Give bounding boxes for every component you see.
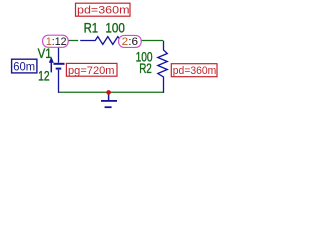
wire bottom: [59, 91, 163, 93]
current arrow: [49, 57, 54, 73]
power box pd R2: [171, 64, 217, 77]
svg-text:R1: R1: [84, 21, 99, 36]
node label 2:6: [119, 35, 142, 48]
battery V1: [54, 46, 65, 93]
resistor R2: [158, 41, 168, 93]
svg-text:pg=720m: pg=720m: [68, 65, 115, 77]
ground: [101, 93, 117, 108]
power box pd R1: [76, 3, 131, 16]
wire top left segment: [59, 40, 79, 42]
svg-text:V1: V1: [38, 46, 52, 61]
wire left branch: [58, 41, 60, 48]
svg-text:R2: R2: [139, 61, 152, 76]
svg-text:100: 100: [105, 21, 125, 36]
svg-text:pd=360m: pd=360m: [77, 5, 130, 17]
svg-text:12: 12: [38, 68, 50, 83]
junction dot: [106, 90, 111, 95]
svg-text:2:6: 2:6: [122, 36, 138, 48]
wire top right segment: [121, 40, 164, 42]
ammeter box 60m: [12, 59, 37, 73]
power box pg V1: [66, 63, 117, 76]
node label 1:12: [43, 35, 69, 48]
resistor R1: [80, 37, 121, 45]
svg-text:pd=360m: pd=360m: [173, 65, 217, 77]
svg-text:60m: 60m: [13, 59, 35, 73]
